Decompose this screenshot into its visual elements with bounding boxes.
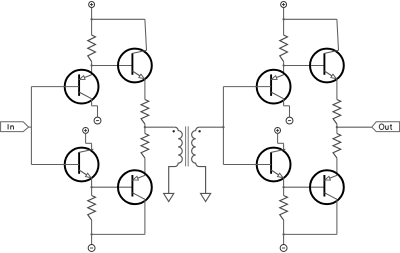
wire bottom rail [92,233,145,235]
supply terminal V3 (+) [83,127,89,133]
supply terminal V7 (+) [275,127,281,133]
junction top rail [90,18,92,20]
resistor R5 [141,100,149,128]
resistor R9 [333,100,341,128]
transformer core [186,126,189,166]
wire Q4 collector to bottom rail [144,199,146,234]
transistor Q7 (NPN) [257,148,291,182]
phase dot primary [173,130,175,132]
junction top rail [282,18,284,20]
node output [336,126,338,128]
wire + terminal to Q3 collector [86,134,92,150]
wire to -V terminal [283,234,285,244]
node bias [90,64,92,66]
node emitter join [282,186,284,188]
wire node to Q2 base [92,65,133,67]
transistor Q6 (NPN) [310,49,344,83]
node bias [282,64,284,66]
wire primary rail [145,126,175,128]
wire Q8 collector to bottom rail [336,199,338,234]
wire output rail to Out flag [337,126,372,128]
wire to -V terminal [91,234,93,244]
supply terminal V1 (+) [89,2,95,8]
In port flag [1,122,29,132]
junction bottom rail [90,233,92,235]
wire node to Q1 emitter [91,66,93,75]
node output [144,126,146,128]
resistor R6 [141,127,149,175]
wire secondary to right riser [199,126,223,128]
transistor Q3 (NPN) [65,148,99,182]
resistor R6 [280,187,288,234]
wire input riser [30,87,32,165]
ground G2 [201,193,211,201]
wire bottom rail [284,233,337,235]
transistor Q8 (PNP) [310,170,344,204]
resistor R1 [88,19,96,65]
transformer primary winding [169,127,183,193]
transistor Q5 (PNP) [257,70,291,104]
transformer secondary winding [192,127,206,193]
wire node to Q4 base [92,186,133,188]
wire Q1 collector to - terminal [92,99,98,118]
Out port flag [372,122,400,132]
supply terminal V8 (-) [280,245,287,252]
supply terminal V5 (+) [281,2,287,8]
supply terminal V4 (-) [88,245,95,252]
wire input riser [222,87,224,165]
wire Q7 emitter to node [283,178,285,187]
wire node to Q8 base [284,186,325,188]
transistor Q4 (PNP) [118,170,152,204]
resistor R5 [280,19,288,65]
transistor Q2 (NPN) [118,49,152,83]
junction bottom rail [282,233,284,235]
supply terminal V2 (-) [94,117,101,124]
wire +V5 to rail [283,8,285,19]
wire In flag to riser [29,126,32,128]
wire node to Q5 emitter [283,66,285,75]
resistor R2 [88,187,96,234]
wire top rail [92,18,145,20]
ground G1 [164,193,174,201]
wire Q3 emitter to node [91,178,93,187]
junction right riser [222,126,224,128]
wire Q1 base [31,86,79,88]
wire Q3 base [31,164,79,166]
node emitter join [90,186,92,188]
phase dot secondary [198,130,200,132]
wire node to Q6 base [284,65,325,67]
wire + terminal to Q7 collector [278,134,284,150]
wire rail to Q2 collector [145,19,147,50]
resistor R10 [333,127,341,175]
wire Q2 emitter to R5 [144,79,146,100]
wire Q6 emitter to R9 [336,79,338,100]
wire Q5 base [223,86,271,88]
wire top rail [284,18,337,20]
wire rail to Q6 collector [337,19,339,50]
wire Q7 base [223,164,271,166]
wire Q5 collector to - terminal [284,99,290,118]
supply terminal V6 (-) [286,117,293,124]
wire +V1 to rail [91,8,93,19]
transistor Q1 (PNP) [65,70,99,104]
